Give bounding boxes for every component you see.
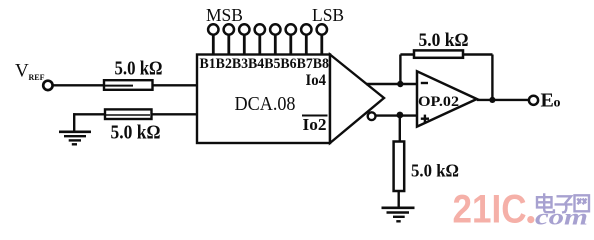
wire down to R4	[399, 116, 401, 143]
wire R4 to ground G2	[398, 191, 400, 209]
DAC U1 DCA.08 box	[197, 55, 330, 144]
pin terminal B8	[317, 24, 327, 55]
wire op-amp output to Eo	[477, 99, 529, 101]
svg-text:5.0 kΩ: 5.0 kΩ	[111, 122, 161, 144]
ground G2	[382, 208, 415, 222]
wire ground to R2	[73, 113, 106, 115]
resistor R1 body	[104, 80, 153, 90]
svg-text:LSB: LSB	[312, 5, 344, 25]
op-amp U2 OP.02 triangle	[417, 71, 477, 126]
svg-text:Io4: Io4	[306, 72, 327, 89]
pin terminal B5	[270, 24, 280, 55]
resistor R2 body	[105, 109, 152, 119]
watermark CJK zi	[555, 196, 573, 212]
watermark CJK dian	[537, 193, 554, 212]
pin terminal B3	[239, 24, 249, 55]
svg-text:REF: REF	[29, 73, 45, 82]
node junction at inverting input	[397, 81, 403, 87]
svg-text:Io2: Io2	[303, 115, 327, 134]
wire feedback left vertical	[399, 55, 401, 85]
wire Io4 output to op-amp inverting input	[366, 83, 418, 85]
wire down to ground G1	[73, 113, 75, 132]
wire VREF terminal to R1	[52, 84, 105, 86]
wire R2 to DCA.08 pin	[151, 113, 199, 115]
svg-text:5.0 kΩ: 5.0 kΩ	[419, 30, 469, 51]
svg-text:5.0 kΩ: 5.0 kΩ	[115, 58, 163, 80]
svg-text:com: com	[535, 205, 588, 230]
svg-text:B1B2B3B4B5B6B7B8: B1B2B3B4B5B6B7B8	[200, 56, 330, 72]
terminal VREF input	[43, 81, 52, 90]
pin terminal B6	[286, 24, 296, 55]
svg-text:o: o	[554, 96, 561, 111]
pin terminal B2	[224, 24, 234, 55]
svg-text:V: V	[15, 61, 29, 82]
wire feedback right vertical	[491, 55, 493, 101]
wire Io2 output to op-amp non-inverting input	[376, 114, 418, 116]
op-amp minus sign	[421, 82, 428, 84]
label Eo	[541, 90, 561, 112]
svg-text:E: E	[541, 90, 554, 112]
resistor R4 body vertical	[394, 142, 405, 192]
label Io2 with overline	[302, 115, 328, 134]
DAC U1 output triangle	[330, 55, 384, 144]
pin terminal B1	[208, 24, 218, 55]
svg-text:MSB: MSB	[206, 5, 243, 25]
node junction at output	[489, 97, 495, 103]
resistor R3 feedback body	[414, 50, 463, 57]
svg-text:OP.02: OP.02	[418, 94, 459, 110]
terminal Eo	[529, 96, 538, 105]
watermark dot	[527, 216, 534, 223]
svg-text:DCA.08: DCA.08	[235, 94, 296, 115]
svg-text:21IC: 21IC	[453, 188, 527, 232]
inverting output bubble on DAC Io2	[368, 112, 376, 120]
wire feedback top horizontal	[400, 53, 492, 55]
ground G1	[59, 132, 91, 145]
svg-text:5.0 kΩ: 5.0 kΩ	[411, 161, 459, 181]
node junction at non-inverting input	[397, 112, 404, 119]
watermark CJK wang	[575, 195, 590, 211]
wire R1 to DCA.08 pin	[152, 84, 199, 86]
op-amp plus sign	[421, 115, 429, 123]
pin terminal B4	[255, 24, 265, 55]
pin terminal B7	[301, 24, 311, 55]
